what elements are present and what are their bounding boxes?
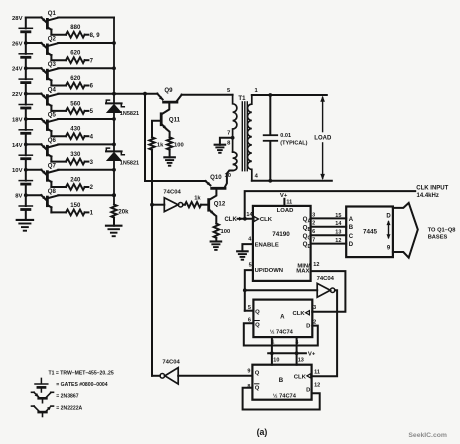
diode D2 1N5821 (schottky): [106, 148, 124, 160]
label 7445 input B: [349, 225, 354, 231]
wire Q5 collector to bus: [58, 118, 114, 120]
wire B Qbar to D loop: [243, 388, 320, 410]
svg-text:Q2: Q2: [48, 36, 57, 43]
label pin 2: [312, 221, 315, 227]
resistor 620 (Q2 base): [66, 51, 85, 63]
terminal label 6: [90, 84, 94, 90]
terminal label 2: [90, 185, 94, 191]
ground ENABLE: [237, 251, 248, 259]
transistor Q12: [209, 200, 226, 224]
transistor Q6: [26, 137, 59, 162]
wire Q7 collector to bus: [58, 169, 114, 171]
block arrow to Q bases: [393, 203, 418, 258]
svg-text:D: D: [306, 388, 310, 394]
svg-text:MAX: MAX: [296, 269, 309, 275]
ground T1 tap: [215, 145, 226, 153]
wire inverter feedback vertical: [151, 150, 153, 376]
wire secondary top: [252, 94, 327, 96]
wire Q9 collector to T1 pin5: [182, 94, 233, 96]
inverter U2a 74C04: [152, 190, 183, 212]
svg-text:Q5: Q5: [48, 112, 57, 119]
diode D1 1N5821 (schottky): [106, 100, 124, 112]
label (a): [257, 427, 268, 437]
junction bus node 7: [112, 168, 116, 172]
svg-text:LOAD: LOAD: [314, 136, 332, 142]
wire 20k to ground: [113, 218, 115, 226]
svg-text:B: B: [279, 377, 284, 384]
svg-text:14.4kHz: 14.4kHz: [417, 193, 439, 199]
label CLK with arrow: [224, 217, 252, 223]
junction V+ pin10: [270, 351, 274, 355]
svg-text:74190: 74190: [272, 231, 290, 238]
wire U2c out: [152, 375, 160, 377]
transistor Q9: [157, 87, 182, 102]
label 7445 input A: [349, 217, 354, 223]
svg-text:3: 3: [312, 212, 315, 218]
label pin 3: [312, 212, 315, 218]
transistor Q10: [205, 174, 225, 188]
junction 18V tap: [24, 117, 28, 121]
junction 8V tap: [24, 193, 28, 197]
node 8V: [15, 194, 22, 200]
legend GATES text: [56, 382, 107, 388]
wire terminal stub 3: [85, 161, 89, 163]
svg-text:UP/DOWN: UP/DOWN: [255, 268, 283, 274]
IC U4b 74C74 B box: [252, 365, 311, 400]
wire Q10 base to Q12 collector: [209, 190, 216, 200]
node 18V: [12, 117, 23, 123]
svg-text:8V: 8V: [15, 194, 22, 200]
wire Q3 collector to bus: [58, 67, 114, 69]
transistor Q1: [26, 10, 59, 35]
resistor 100 (Q12 emitter): [214, 224, 231, 238]
transistor Q8: [26, 188, 59, 213]
wire collector bus top segment: [113, 18, 115, 103]
pin CLK symbol U1: [254, 216, 273, 223]
label V+ rail: [308, 351, 316, 357]
resistor 1k (Q11 base): [149, 137, 164, 149]
transistor Q3: [26, 61, 59, 86]
svg-text:SeekIC.com: SeekIC.com: [408, 432, 447, 439]
wire Q1 base lead: [51, 34, 66, 36]
label pin 4: [248, 237, 252, 243]
svg-text:10V: 10V: [12, 168, 23, 174]
svg-text:11: 11: [286, 199, 292, 205]
svg-text:1N5821: 1N5821: [120, 160, 139, 166]
wire Q3 base lead: [51, 85, 66, 87]
svg-text:Q3: Q3: [48, 61, 57, 68]
ground battery rail: [17, 220, 33, 231]
label TO Q1-Q8 BASES: [428, 227, 456, 240]
terminal label 4: [90, 134, 94, 140]
terminal label 5: [90, 109, 94, 115]
svg-text:20k: 20k: [118, 210, 129, 216]
wire inverter to 1k: [183, 204, 185, 206]
resistor 560 (Q4 base): [66, 101, 85, 113]
svg-text:A: A: [280, 313, 285, 320]
label 7445 pin 15: [335, 213, 341, 219]
wire Q6 collector to bus: [58, 143, 114, 145]
svg-text:Q6: Q6: [48, 137, 57, 144]
svg-text:Q12: Q12: [214, 200, 226, 207]
svg-text:74C04: 74C04: [162, 359, 180, 365]
svg-text:Q: Q: [255, 386, 260, 392]
wire ENABLE to ground: [242, 244, 253, 251]
label D A: [306, 324, 310, 330]
transistor Q11: [161, 114, 180, 138]
svg-text:D: D: [308, 244, 312, 250]
svg-text:CLK: CLK: [292, 311, 305, 317]
svg-text:A: A: [349, 217, 354, 223]
svg-text:½ 74C74: ½ 74C74: [273, 392, 297, 399]
label Qbar A: [255, 321, 260, 329]
wire QA to 7445: [311, 217, 347, 219]
svg-text:6: 6: [312, 229, 315, 235]
svg-text:CLK INPUT: CLK INPUT: [416, 186, 448, 192]
svg-text:2: 2: [312, 221, 315, 227]
wire pin5 to A Q: [245, 270, 253, 311]
battery cell 22V rail segment: [19, 94, 32, 119]
svg-text:Q: Q: [255, 310, 260, 316]
watermark SeekIC.com: [408, 432, 447, 439]
label UP/DOWN: [255, 268, 283, 274]
label pin 11: [286, 199, 292, 205]
label 1/2 74C74 B: [273, 392, 297, 399]
label Q B: [255, 371, 260, 377]
svg-text:100: 100: [174, 143, 184, 149]
svg-text:240: 240: [70, 178, 81, 184]
label pin 14: [246, 212, 253, 218]
svg-text:1: 1: [271, 340, 274, 346]
transistor Q2: [26, 36, 59, 61]
label pin 2 A: [313, 320, 316, 326]
junction CLK node: [243, 217, 247, 221]
battery cell 26V rail segment: [19, 43, 32, 68]
inverter U2c 74C04: [160, 368, 178, 384]
junction bus node 6: [112, 143, 116, 147]
wire V+ to pin 11: [283, 199, 285, 206]
label pin 13 B: [298, 358, 304, 364]
svg-text:C: C: [308, 236, 312, 242]
IC U4a 74C74 A box: [253, 300, 312, 338]
wire Q4 collector to bus: [58, 93, 114, 95]
IC U3 7445 box: [346, 207, 393, 258]
svg-text:CLK: CLK: [294, 375, 307, 381]
junction 14V tap: [24, 143, 28, 147]
wire Q5 base lead: [51, 135, 66, 137]
terminal label 3: [90, 160, 94, 166]
wire B pin10 stub: [271, 353, 273, 364]
legend transistor 2N2222A symbol: [32, 406, 54, 417]
svg-text:T1: T1: [238, 95, 246, 102]
svg-text:12: 12: [314, 383, 320, 389]
label V+ (74190): [280, 193, 288, 199]
svg-text:Q11: Q11: [169, 116, 181, 123]
label 74C04 U2b: [317, 276, 335, 282]
junction UP/DOWN tap: [243, 288, 247, 292]
label QD output: [303, 241, 312, 250]
svg-text:Q4: Q4: [48, 86, 57, 93]
label pin 9 B: [247, 368, 250, 374]
legend T1 text: [49, 371, 114, 377]
svg-text:12: 12: [335, 238, 341, 244]
svg-text:13: 13: [298, 358, 304, 364]
svg-text:V+: V+: [308, 351, 316, 357]
svg-text:7445: 7445: [363, 229, 378, 236]
wire collector bus mid segment: [113, 112, 115, 150]
wire B pin13 stub: [296, 353, 298, 364]
label pin 12 B: [314, 383, 320, 389]
label 7445 pin 14: [335, 221, 342, 227]
wire terminal stub 7: [85, 59, 89, 61]
label 7445 input C: [349, 234, 354, 240]
label CLK INPUT: [416, 186, 448, 192]
svg-text:13: 13: [335, 230, 341, 236]
label Q A: [255, 310, 260, 316]
label T1 pin5: [227, 88, 231, 94]
svg-text:24V: 24V: [12, 67, 23, 73]
label 7445 pin 13: [335, 230, 341, 236]
svg-text:V+: V+: [280, 193, 288, 199]
label T1 pin10: [225, 173, 231, 179]
svg-text:Q1: Q1: [48, 10, 57, 17]
svg-text:TO Q1–Q8: TO Q1–Q8: [428, 227, 456, 233]
terminal label 7: [90, 58, 94, 64]
svg-text:9: 9: [247, 368, 250, 374]
wire terminal stub 5: [85, 110, 89, 112]
svg-text:8, 9: 8, 9: [90, 33, 101, 39]
junction 10V tap: [24, 168, 28, 172]
wire secondary bottom: [252, 180, 332, 182]
resistor 150 (Q8 base): [66, 203, 85, 215]
wire Q11 base lead: [152, 121, 161, 138]
svg-text:3: 3: [313, 305, 316, 311]
battery cell 28V rail segment: [19, 18, 32, 44]
label output D: [386, 213, 391, 219]
resistor 240 (Q7 base): [66, 178, 85, 190]
wire Q2 base lead: [51, 59, 66, 61]
label 0.01: [280, 133, 291, 139]
battery cell 24V rail segment: [19, 68, 32, 93]
capacitor 0.01: [264, 95, 278, 181]
wire V+ rail: [268, 352, 306, 354]
label pin 11 B: [314, 370, 320, 376]
svg-text:(a): (a): [257, 427, 268, 437]
junction bus node 8: [112, 193, 116, 197]
transistor Q4: [26, 86, 59, 111]
svg-text:A: A: [308, 219, 312, 225]
svg-text:= GATES #0800–0004: = GATES #0800–0004: [56, 382, 107, 388]
transformer T1 primary winding: [233, 95, 237, 171]
wire bus to Q9 emitter: [114, 93, 157, 95]
label QC output: [303, 233, 312, 242]
svg-text:Q9: Q9: [164, 87, 173, 94]
svg-text:LOAD: LOAD: [277, 208, 294, 214]
junction bus at 20k: [112, 193, 116, 197]
wire Q7 base lead: [51, 186, 66, 188]
svg-text:Q7: Q7: [48, 162, 57, 169]
label pin 5 A: [248, 305, 251, 311]
battery cell 18V rail segment: [19, 119, 32, 144]
transistor Q5: [26, 112, 59, 137]
label A: [280, 313, 285, 320]
wire terminal stub 2: [85, 186, 89, 188]
wire QC to 7445: [311, 234, 347, 236]
svg-text:D: D: [306, 324, 310, 330]
junction 22V tap: [24, 92, 28, 96]
label B: [279, 377, 284, 384]
battery cell 10V rail segment: [19, 170, 32, 195]
label 7445 input D: [349, 242, 354, 248]
transformer T1 core: [242, 102, 247, 171]
wire Q8 base lead: [51, 211, 66, 213]
label 1N5821 D2: [120, 160, 139, 166]
label LOAD (pin11): [277, 208, 294, 214]
wire QB to 7445: [311, 226, 347, 228]
svg-text:CLK: CLK: [260, 217, 273, 223]
wire terminal stub 1: [85, 211, 89, 213]
svg-text:= 2N2222A: = 2N2222A: [56, 406, 82, 412]
junction V+ pin13: [295, 351, 299, 355]
node 26V: [12, 41, 23, 47]
IC U1 74190 box: [253, 206, 311, 281]
label 74190: [272, 231, 290, 238]
wire QD to 7445: [311, 243, 347, 245]
svg-text:620: 620: [70, 51, 81, 57]
legend transistor 2N3867 symbol: [32, 392, 54, 402]
label 7445: [363, 229, 378, 236]
wire UP/DOWN to inverter U2b: [245, 289, 317, 291]
wire terminal stub 4: [85, 135, 89, 137]
svg-text:330: 330: [70, 152, 81, 158]
wire Q12 100 to ground: [215, 238, 217, 242]
wire Q6 base lead: [51, 161, 66, 163]
label pin 7: [312, 238, 315, 244]
resistor 330 (Q6 base): [66, 152, 85, 164]
junction 24V tap: [24, 66, 28, 70]
junction bus node 2: [112, 41, 116, 45]
label 14.4kHz: [417, 193, 439, 199]
resistor 100 (Q11 emitter): [167, 137, 184, 149]
svg-text:100: 100: [221, 229, 231, 235]
label output 9: [387, 245, 391, 251]
wire T1 tap to ground: [220, 138, 233, 145]
terminal label 1: [90, 211, 94, 217]
junction cap top: [268, 93, 272, 97]
svg-text:B: B: [308, 227, 312, 233]
ground 20k: [106, 226, 122, 237]
wire Q8 collector to bus: [58, 194, 114, 196]
legend 2N3867 text: [56, 393, 78, 399]
svg-text:D: D: [349, 242, 354, 248]
wire terminal stub 8, 9: [85, 34, 89, 36]
wire Q9 base to Q11 collector: [162, 103, 170, 114]
ground Q12 emitter: [211, 242, 222, 250]
label pin 5: [249, 263, 252, 269]
label pin 10 B: [273, 358, 279, 364]
label T1 pin7: [227, 131, 230, 137]
node 10V: [12, 168, 23, 174]
label pin 3 A: [313, 305, 316, 311]
svg-text:D: D: [386, 213, 391, 219]
svg-text:14: 14: [335, 221, 342, 227]
wire MIN/MAX to A CLK: [311, 271, 346, 312]
svg-text:1N5821: 1N5821: [120, 111, 139, 117]
svg-text:14V: 14V: [12, 143, 23, 149]
svg-text:(TYPICAL): (TYPICAL): [280, 141, 307, 147]
wire A pin1 stub: [271, 337, 273, 353]
legend 2N2222A text: [56, 406, 82, 412]
arrow outputs D to 9: [387, 220, 391, 239]
svg-text:1k: 1k: [194, 195, 201, 201]
transformer T1 secondary winding: [248, 95, 252, 181]
wire Q4 base lead: [51, 110, 66, 112]
label pin 6 A: [248, 317, 251, 323]
resistor 880 (Q1 base): [66, 25, 85, 37]
wire Q2 collector to bus: [58, 42, 114, 44]
svg-text:12: 12: [313, 262, 319, 268]
svg-text:880: 880: [70, 25, 81, 31]
resistor 620 (Q3 base): [66, 76, 85, 88]
label QB output: [303, 224, 312, 233]
wire Q10 collector to T1 pin10: [225, 171, 233, 188]
transistor Q7: [26, 162, 59, 187]
wire U2b out to B CLK: [312, 290, 338, 376]
label D B: [306, 388, 310, 394]
svg-text:7: 7: [312, 238, 315, 244]
wire collector bus lower segment: [113, 160, 115, 204]
svg-text:½ 74C74: ½ 74C74: [270, 328, 294, 335]
svg-text:430: 430: [70, 127, 81, 133]
svg-text:74C04: 74C04: [317, 276, 335, 282]
wire CLK INPUT: [245, 191, 416, 219]
junction inverter input tap: [150, 203, 154, 207]
svg-text:Q10: Q10: [210, 174, 222, 181]
resistor 430 (Q5 base): [66, 127, 85, 139]
resistor 20k: [111, 205, 129, 218]
svg-text:Q: Q: [255, 322, 260, 328]
svg-text:560: 560: [70, 101, 81, 107]
svg-text:28V: 28V: [12, 16, 23, 22]
battery cell 8V rail segment: [19, 195, 32, 220]
label Qbar B: [255, 384, 260, 392]
battery cell 14V rail segment: [19, 144, 32, 169]
label T1 pin8: [227, 140, 231, 146]
svg-text:C: C: [349, 234, 354, 240]
svg-text:0.01: 0.01: [280, 133, 291, 139]
inverter U2b 74C04: [317, 283, 335, 297]
svg-text:Q8: Q8: [48, 188, 57, 195]
junction T1 tap: [231, 136, 235, 140]
svg-text:22V: 22V: [12, 92, 23, 98]
label CLK B: [294, 374, 311, 381]
junction bus node 5: [112, 117, 116, 121]
svg-text:Q: Q: [255, 371, 260, 377]
svg-text:10: 10: [273, 358, 279, 364]
label QA output: [303, 216, 312, 225]
svg-text:7: 7: [227, 131, 230, 137]
svg-text:26V: 26V: [12, 41, 23, 47]
svg-text:ENABLE: ENABLE: [255, 243, 279, 249]
node 28V: [12, 16, 23, 22]
wire A pin4 stub: [296, 337, 298, 353]
wire B Q to inverter U2c: [178, 375, 252, 377]
svg-text:15: 15: [335, 213, 341, 219]
node 14V: [12, 143, 23, 149]
svg-text:18V: 18V: [12, 117, 23, 123]
svg-text:1k: 1k: [157, 143, 164, 149]
svg-text:CLK: CLK: [224, 217, 237, 223]
